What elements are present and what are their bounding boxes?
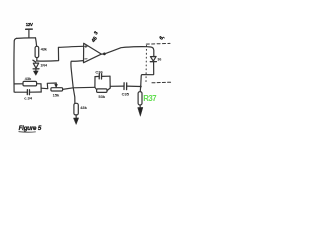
- svg-text:1N4: 1N4: [40, 63, 47, 67]
- wire RC out to R33: [41, 87, 48, 90]
- diode D2 cathode bar: [150, 61, 156, 63]
- dashed continuation top: [146, 42, 170, 45]
- dashed continuation bottom: [152, 81, 171, 84]
- op-amp plus sign: [85, 45, 87, 47]
- svg-text:3: 3: [93, 30, 100, 36]
- svg-text:Figure 5: Figure 5: [19, 125, 42, 132]
- capacitor C35 plates: [124, 83, 127, 90]
- resistor R36: [97, 89, 107, 93]
- op-amp U1: [84, 43, 102, 62]
- svg-text:45: 45: [91, 36, 99, 44]
- wire D2 down to node: [141, 62, 154, 87]
- wire top horizontal: [17, 37, 36, 40]
- output node dot: [103, 53, 106, 56]
- wire feedback from minus input: [71, 61, 83, 104]
- dotted vertical boundary: [145, 46, 148, 82]
- wire R35 to diode node: [36, 58, 38, 61]
- svg-text:15k: 15k: [53, 92, 60, 97]
- wire node to R37: [139, 87, 142, 92]
- ground arrow below R31: [74, 118, 79, 125]
- wire R37 to arrow: [139, 105, 141, 108]
- wire rail corner into C34: [14, 91, 27, 93]
- label diagonal top right: [159, 34, 167, 42]
- node tick: [33, 60, 36, 62]
- capacitor C34 plates: [26, 90, 28, 95]
- resistor R33: [51, 88, 63, 91]
- svg-text:C36: C36: [95, 70, 103, 75]
- ground arrow below R37: [138, 107, 143, 116]
- wire node to op-amp + input: [37, 46, 83, 61]
- wire output: [101, 47, 153, 57]
- svg-text:12V: 12V: [26, 22, 33, 27]
- wire C35 to right node: [127, 85, 141, 87]
- diode D1: [33, 63, 38, 68]
- trimmer bracket R33: [47, 83, 56, 89]
- wire R33 right to bottom node: [63, 87, 95, 89]
- trimmer wiper arrow: [55, 84, 58, 87]
- diode D1 cathode bar: [33, 68, 39, 70]
- resistor R34: [23, 81, 37, 86]
- resistor R36 sag connectors: [95, 87, 110, 90]
- wire R34 right lead: [37, 83, 41, 85]
- svg-text:c.34: c.34: [24, 95, 33, 100]
- wire C34 right lead: [30, 91, 42, 93]
- svg-text:43k: 43k: [41, 47, 48, 52]
- resistor R31: [74, 103, 78, 115]
- power supply T bar: [26, 28, 33, 30]
- ground arrow below D1: [35, 69, 37, 71]
- power stem wire: [28, 29, 30, 38]
- op-amp minus sign: [85, 58, 87, 60]
- svg-text:6,: 6,: [159, 34, 167, 42]
- wire into R35: [36, 38, 37, 46]
- resistor R37: [138, 92, 142, 105]
- wire RC right vertical: [40, 84, 42, 92]
- svg-text:R37: R37: [143, 94, 156, 103]
- wire rail to R34 lead: [14, 83, 23, 85]
- right node dot: [140, 85, 142, 87]
- wire mid RC to C35: [110, 85, 124, 87]
- svg-text:43k: 43k: [80, 105, 87, 110]
- label op-amp diagonal: [91, 30, 100, 44]
- resistor R35: [35, 46, 39, 57]
- caption underline: [19, 131, 36, 134]
- wire R31 to arrow: [75, 115, 77, 118]
- svg-text:36: 36: [157, 57, 161, 61]
- svg-text:53k: 53k: [98, 94, 105, 99]
- wire left rail: [14, 38, 17, 92]
- capacitor C36 top branch: [95, 75, 110, 77]
- mid RC right vertical: [109, 76, 111, 88]
- capacitor C36 plates: [99, 74, 101, 79]
- diode D2: [150, 57, 156, 62]
- svg-text:C35: C35: [122, 91, 130, 96]
- svg-text:43k: 43k: [25, 76, 32, 81]
- mid RC left vertical: [94, 77, 96, 88]
